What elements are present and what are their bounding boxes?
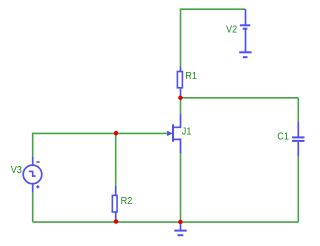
capacitor C1 [292, 122, 304, 157]
resistor R2 [112, 186, 117, 221]
wire R2 top vertical [115, 133, 117, 186]
wire top (V2 to R1 top) [181, 8, 246, 10]
ground (bottom) [174, 222, 186, 235]
wire J1 drain vertical [180, 98, 182, 114]
node R2 bottom junction [114, 219, 119, 224]
wire R1 top vertical [180, 8, 182, 66]
wire node A horizontal (R1 bottom to C1 top) [181, 97, 299, 99]
battery V2 [240, 9, 250, 51]
svg-text:V3: V3 [11, 164, 22, 176]
svg-text:C1: C1 [277, 130, 289, 142]
wire C1 top vertical [297, 98, 299, 122]
svg-text:V2: V2 [226, 23, 237, 35]
resistor R1 [177, 66, 182, 97]
wire bottom horizontal [33, 221, 299, 223]
svg-text:J1: J1 [182, 126, 192, 138]
transistor J1 [167, 114, 180, 153]
node ground junction [178, 220, 183, 225]
node A junction [178, 96, 183, 101]
node gate junction [114, 131, 119, 136]
ground (V2 negative) [239, 52, 251, 57]
generator V3 [23, 157, 42, 192]
wire V3 bottom vertical [32, 192, 34, 222]
svg-text:R2: R2 [121, 195, 133, 207]
wire V3 top vertical [32, 133, 34, 157]
wire J1 source vertical [180, 153, 182, 222]
wire C1 bottom vertical [297, 157, 299, 223]
wire gate horizontal [33, 132, 168, 134]
svg-text:R1: R1 [185, 70, 197, 82]
